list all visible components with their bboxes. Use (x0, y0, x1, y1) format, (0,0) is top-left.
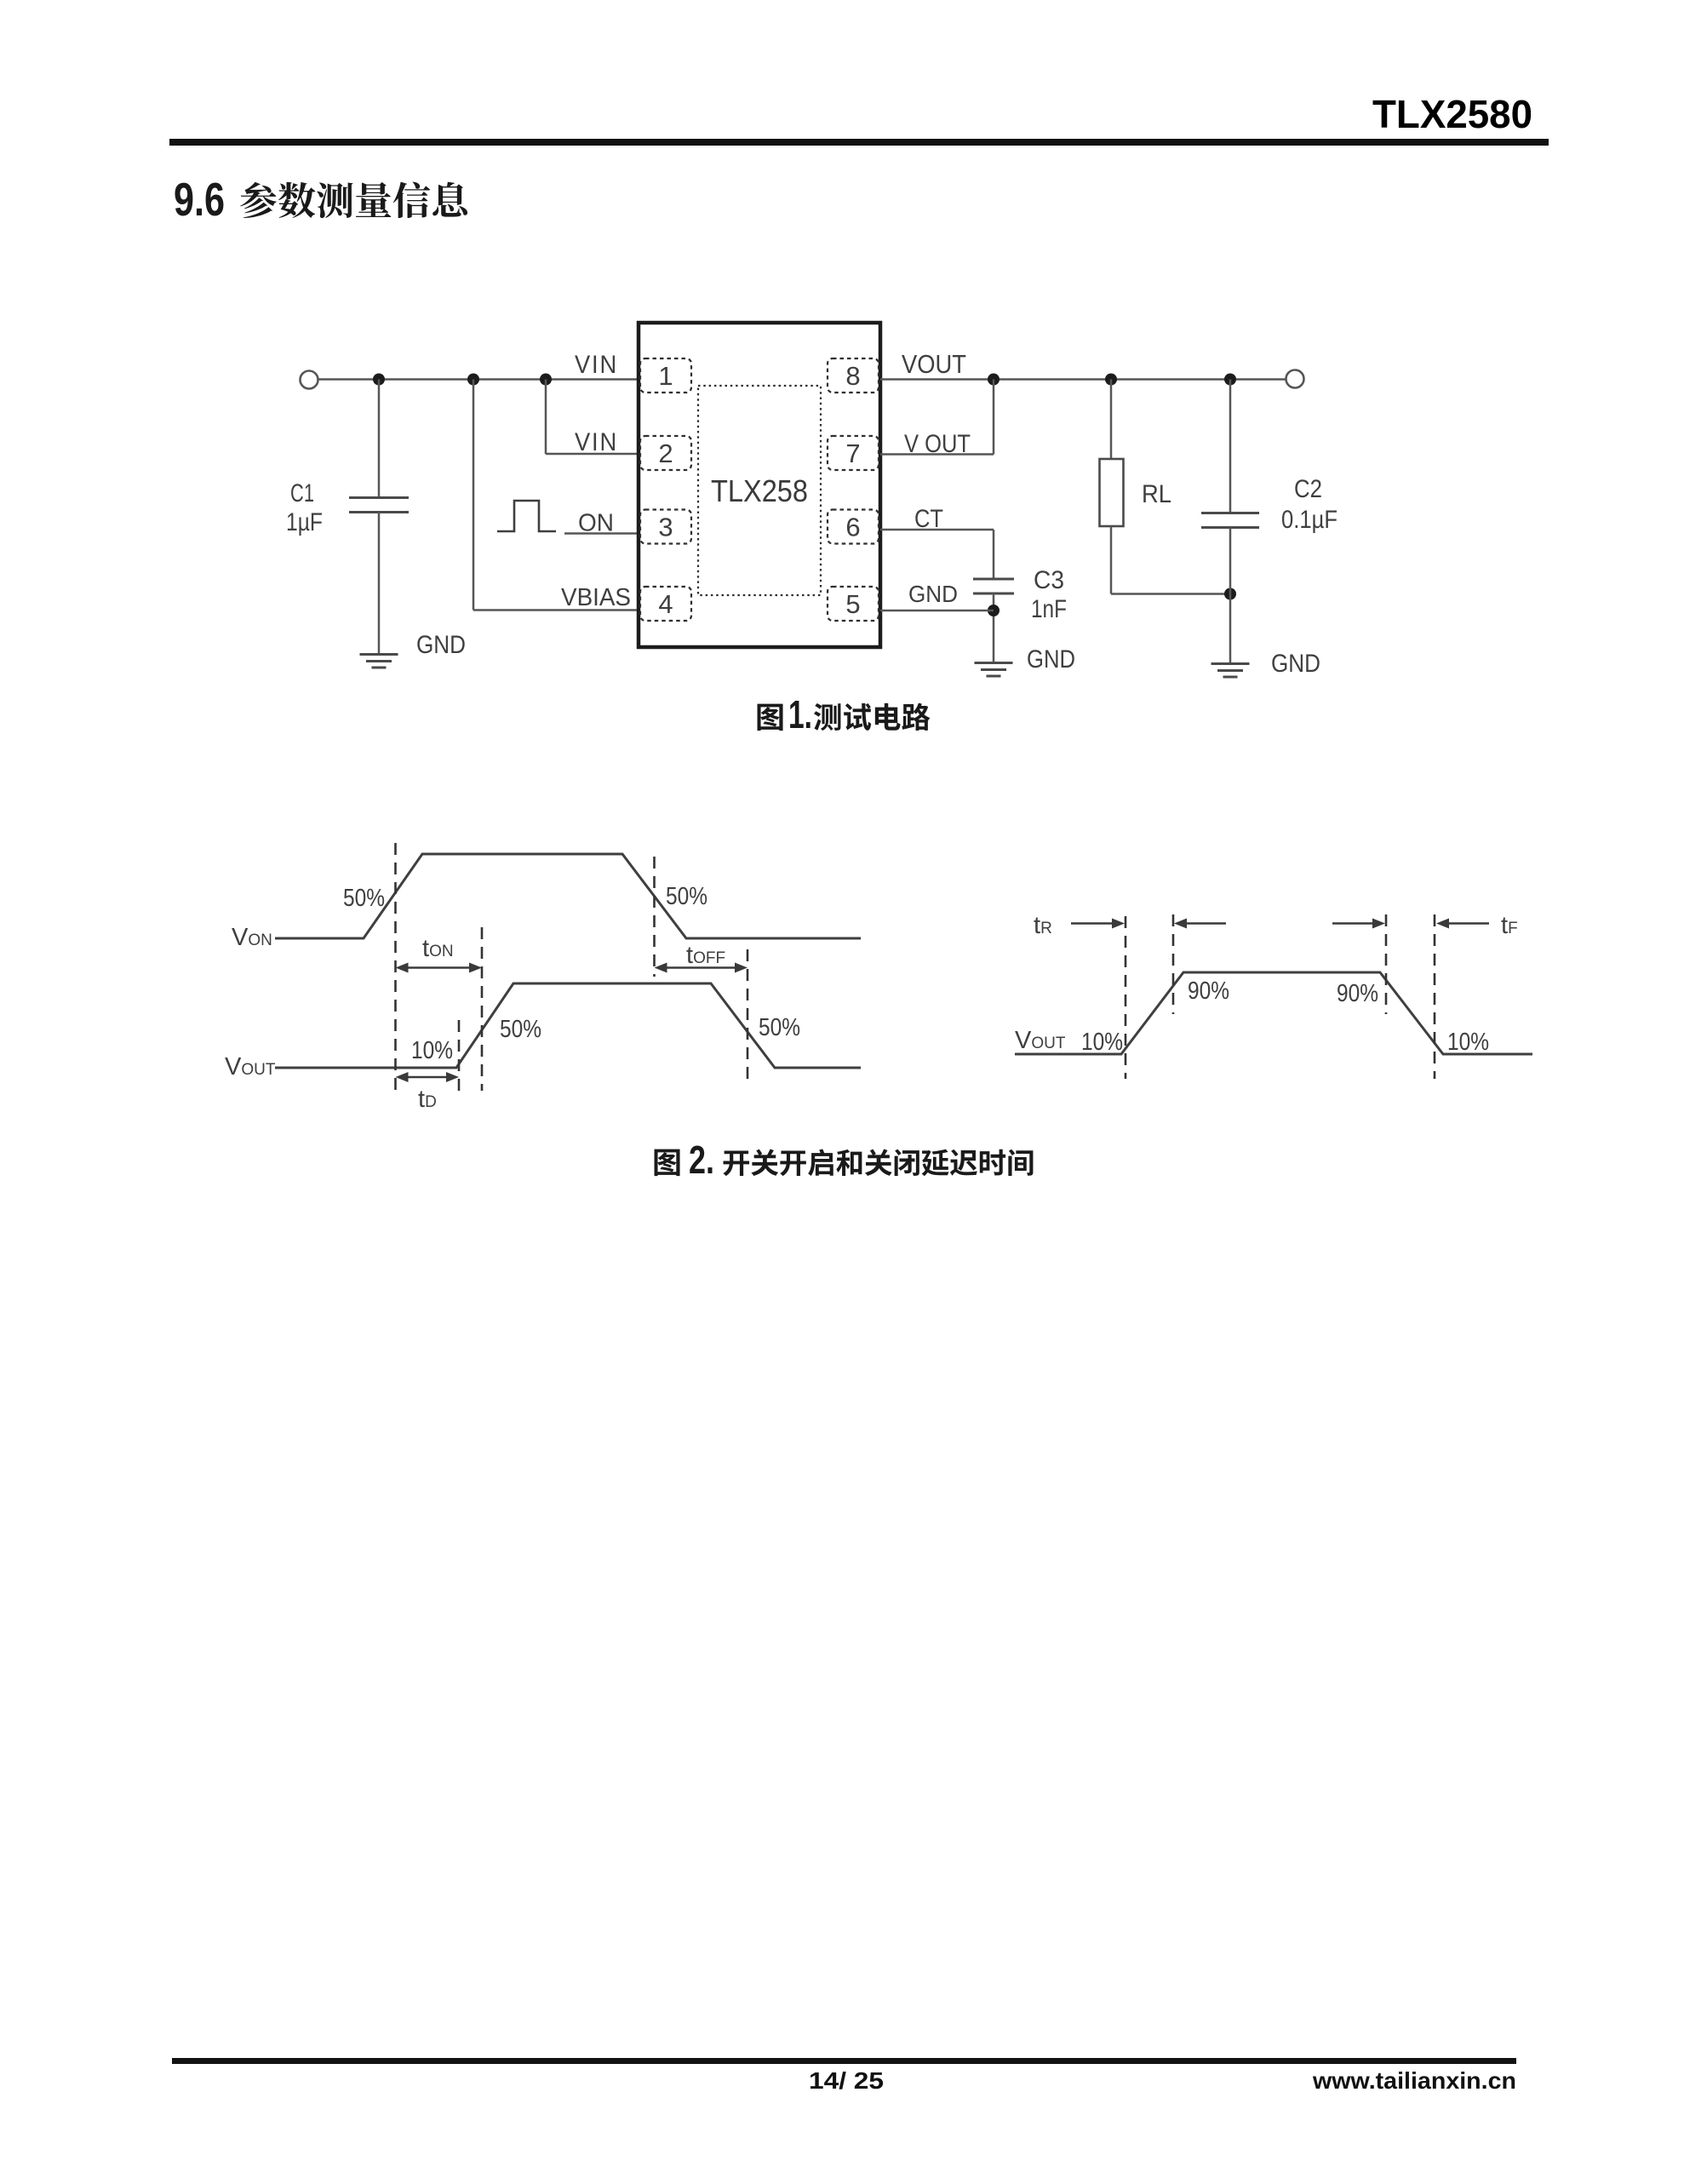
svg-text:VIN: VIN (575, 351, 618, 379)
svg-text:50%: 50% (666, 883, 707, 910)
pin 7 box (828, 436, 879, 470)
tF arrow (1447, 922, 1489, 925)
svg-text:TLX2580: TLX2580 (1372, 92, 1532, 136)
wire VIN pin2 branch (545, 380, 547, 455)
svg-text:14/ 25: 14/ 25 (809, 2067, 884, 2094)
wire top rail right VOUT (880, 378, 1286, 381)
junction VIN pin2 branch (540, 374, 552, 386)
svg-text:5: 5 (845, 589, 860, 619)
figure 2 caption (655, 1149, 680, 1177)
svg-text:V OUT: V OUT (904, 430, 971, 458)
tF inner arrow (1332, 922, 1374, 925)
pin 1 box (640, 358, 691, 393)
svg-text:1nF: 1nF (1031, 595, 1067, 623)
svg-text:9.6: 9.6 (174, 173, 225, 226)
svg-text:VOUT: VOUT (902, 349, 966, 379)
figure 1 caption (758, 704, 783, 731)
dashed marker tON start (394, 843, 397, 1091)
svg-text:tD: tD (418, 1086, 437, 1113)
svg-text:VIN: VIN (575, 428, 618, 456)
junction pin7 riser (988, 374, 1000, 386)
node VOUT output terminal (1286, 370, 1304, 388)
junction C2 bottom (1224, 588, 1236, 600)
svg-text:TLX258: TLX258 (711, 473, 808, 508)
svg-text:VBIAS: VBIAS (561, 584, 631, 611)
ground C1 (360, 653, 398, 656)
wire RL bottom to C2 (1111, 593, 1230, 595)
svg-text:tOFF: tOFF (686, 942, 725, 969)
svg-text:VON: VON (232, 924, 272, 951)
junction RL top (1105, 374, 1117, 386)
dashed marker tR end (1172, 914, 1175, 1014)
junction GND pin5 (988, 605, 1000, 616)
svg-text:RL: RL (1142, 480, 1171, 508)
svg-text:tF: tF (1501, 912, 1518, 939)
ground C3 (975, 662, 1013, 664)
svg-text:10%: 10% (1081, 1029, 1123, 1056)
svg-text:90%: 90% (1188, 977, 1229, 1005)
svg-text:50%: 50% (759, 1014, 800, 1041)
dashed marker tD end (458, 1020, 461, 1091)
svg-text:3: 3 (658, 513, 673, 542)
tOFF arrow (666, 966, 737, 969)
pulse source symbol (497, 501, 556, 531)
svg-text:10%: 10% (1447, 1029, 1489, 1056)
resistor RL (1110, 380, 1113, 460)
wire VBIAS branch (473, 380, 475, 610)
VOUT waveform left diagram (275, 983, 861, 1068)
header rule (169, 139, 1549, 146)
pin 3 box (640, 510, 691, 544)
wire top rail left (318, 378, 640, 381)
tD arrow (407, 1076, 449, 1079)
svg-text:2: 2 (658, 439, 673, 468)
IC inner dashed boundary (698, 386, 821, 595)
dashed marker tOFF start (653, 857, 656, 977)
junction VBIAS branch (467, 374, 479, 386)
capacitor C2 (1229, 380, 1232, 513)
dashed marker tOFF end (747, 949, 749, 1084)
wire V OUT pin7 (880, 453, 994, 456)
VON waveform (275, 854, 861, 938)
svg-text:7: 7 (845, 439, 860, 468)
dashed marker tON end (481, 927, 484, 1091)
dashed marker tR start (1125, 916, 1127, 1079)
dashed marker tF start (1385, 914, 1388, 1014)
svg-text:4: 4 (658, 589, 673, 619)
pin 8 box (828, 358, 879, 393)
svg-text:90%: 90% (1337, 980, 1378, 1007)
pin 6 box (828, 510, 879, 544)
svg-text:8: 8 (845, 361, 860, 391)
svg-text:1: 1 (658, 361, 673, 391)
svg-text:tON: tON (422, 935, 454, 962)
op IC U1 TLX258 outline (639, 323, 880, 647)
svg-text:CT: CT (914, 505, 943, 533)
junction C2 top (1224, 374, 1236, 386)
ground C2 (1211, 662, 1250, 665)
section title 参数测量信息 (240, 182, 277, 218)
svg-text:VOUT: VOUT (225, 1053, 276, 1081)
svg-text:GND: GND (1271, 650, 1320, 678)
tON arrow (407, 966, 472, 969)
svg-text:50%: 50% (343, 885, 385, 912)
svg-text:10%: 10% (411, 1037, 453, 1064)
svg-text:tR: tR (1034, 912, 1052, 939)
pin 4 box (640, 587, 691, 621)
svg-text:C1: C1 (290, 479, 314, 507)
wire GND pin5 (880, 610, 994, 612)
dashed marker tF end (1434, 914, 1436, 1079)
capacitor C1 (378, 380, 381, 498)
svg-text:C3: C3 (1034, 566, 1064, 594)
pin 2 box (640, 436, 691, 470)
tR inner arrow (1185, 922, 1226, 925)
junction C1 top (373, 374, 385, 386)
svg-text:C2: C2 (1294, 475, 1322, 503)
svg-text:GND: GND (416, 631, 466, 659)
capacitor C3 (973, 578, 1014, 581)
svg-text:VOUT: VOUT (1015, 1027, 1066, 1054)
node VIN input terminal (301, 371, 318, 389)
footer rule (172, 2058, 1516, 2064)
svg-text:6: 6 (845, 513, 860, 542)
svg-text:1µF: 1µF (286, 508, 323, 536)
svg-text:GND: GND (1027, 645, 1075, 674)
wire ON to pin3 (564, 532, 639, 535)
svg-text:1.: 1. (788, 692, 812, 737)
svg-text:2.: 2. (689, 1138, 714, 1182)
wire CT pin6 (880, 529, 994, 531)
svg-text:0.1µF: 0.1µF (1281, 506, 1337, 534)
svg-text:GND: GND (908, 581, 958, 607)
svg-text:50%: 50% (500, 1016, 541, 1043)
tR arrow (1071, 922, 1114, 925)
pin 5 box (828, 587, 879, 621)
svg-text:www.tailianxin.cn: www.tailianxin.cn (1312, 2067, 1516, 2094)
VOUT waveform right diagram (1015, 972, 1532, 1054)
